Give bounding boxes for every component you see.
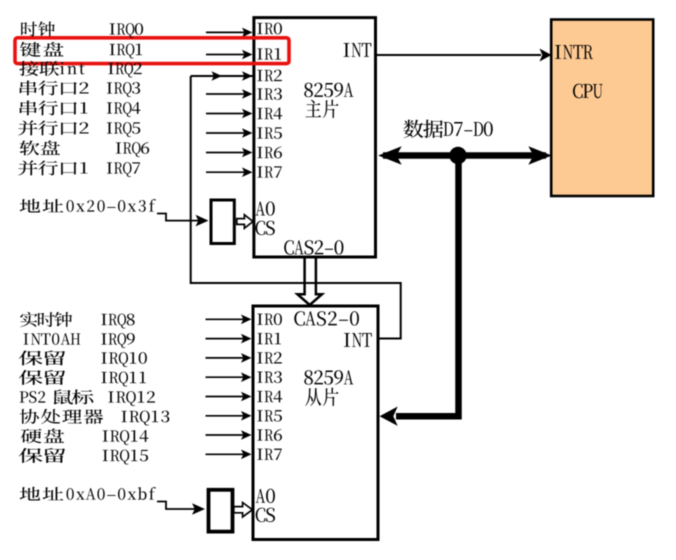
- box U1: master 8259A chip: [254, 18, 376, 257]
- label: 串行口 1 IRQ4: [20, 100, 141, 117]
- wire: IRQ8 arrow into slave IR0: [206, 318, 244, 320]
- wire: slave INT feedback up to master IR2 input: [191, 76, 401, 339]
- label: 数据D7-D0 data bus: [403, 120, 492, 138]
- pin label: master IR3: [257, 88, 282, 100]
- bus: data D7-D0 horizontal between master and CPU (double arrow): [383, 152, 546, 159]
- wire: IRQ7 arrow into master IR7: [206, 171, 244, 173]
- pin label: master CAS2-0: [284, 240, 343, 255]
- label: 并行口 2 IRQ5: [18, 120, 140, 137]
- wire: IRQ4 arrow into master IR4: [206, 113, 244, 115]
- wire: IRQ5 arrow into master IR5: [206, 132, 244, 134]
- label: 并行口 1 IRQ7: [18, 160, 140, 177]
- box U2: slave 8259A chip: [253, 306, 378, 540]
- wire: IRQ2 line into master IR2 (joined by slave INT wire): [191, 75, 253, 77]
- pin label: master IR4: [257, 108, 282, 120]
- pin label: slave INT: [344, 333, 372, 347]
- pin label: master IR6: [257, 147, 282, 159]
- text: master 8259A: [304, 83, 353, 97]
- wire: IRQ10 arrow into slave IR2: [206, 357, 244, 359]
- label: 实时钟 IRQ8: [20, 312, 135, 329]
- wire: IRQ11 arrow into slave IR3: [206, 376, 244, 378]
- pin label: slave IR0: [257, 313, 282, 325]
- wire: IRQ12 arrow into slave IR4: [206, 396, 244, 398]
- wire: IRQ9 arrow into slave IR1: [206, 338, 244, 340]
- bus: junction dot on data bus: [449, 147, 466, 164]
- pin label: slave IR4: [257, 391, 282, 403]
- label: 协处理器 IRQ13: [20, 409, 170, 426]
- pin label: slave IR3: [257, 371, 282, 383]
- label: 保留 IRQ10: [19, 350, 147, 367]
- wire: IRQ0 arrow into master IR0: [206, 31, 244, 33]
- pin label: slave CAS2-0: [294, 311, 359, 326]
- pin label: slave CS: [256, 508, 275, 522]
- text: slave 8259A: [304, 370, 353, 384]
- label: 串行口 2 IRQ3: [20, 80, 140, 97]
- label: INT0AH IRQ9: [24, 333, 135, 348]
- wire: IRQ3 arrow into master IR3: [206, 93, 244, 95]
- pin label: slave A0: [256, 489, 275, 503]
- text: master 主片: [305, 100, 338, 118]
- hollow arrow: decoder A2 output to slave A0/CS: [234, 503, 253, 517]
- pin label: slave IR7: [257, 449, 281, 460]
- box U3: CPU: [551, 20, 653, 197]
- pin label: master IR2: [257, 70, 282, 82]
- wire: address 0xA0-0xbf to decoder A2: [157, 502, 199, 510]
- wire: IRQ13 arrow into slave IR5: [206, 415, 244, 417]
- label: 接联 int IRQ2: [19, 61, 141, 78]
- label: 地址 0x20-0x3f: [20, 199, 156, 213]
- wire: IRQ14 arrow into slave IR6: [206, 434, 244, 436]
- wire: master INT to CPU INTR: [377, 54, 541, 56]
- wire: IRQ15 arrow into slave IR7: [206, 453, 244, 455]
- pin label: master IR1: [257, 48, 281, 60]
- bus: data bus vertical drop and arrow into slave: [396, 156, 459, 417]
- text: slave 从片: [305, 388, 338, 406]
- label: 硬盘 IRQ14: [21, 428, 149, 445]
- label: 保留 IRQ11: [19, 370, 146, 387]
- label: 键盘 IRQ1: [20, 42, 142, 59]
- label: 地址 0xA0-0xbf: [20, 487, 156, 501]
- label: 保留 IRQ15: [19, 448, 148, 465]
- pin label: master CS: [255, 221, 274, 235]
- box A2: slave address decoder: [209, 490, 233, 532]
- pin label: master A0: [255, 201, 274, 215]
- text: CPU: [573, 84, 603, 99]
- pin label: master INT: [344, 43, 372, 57]
- label: 时钟 IRQ0: [21, 21, 143, 38]
- block arrow: CAS2-0 cascade from master down to slave: [297, 259, 322, 306]
- pin label: slave IR2: [257, 352, 282, 364]
- wire: IRQ1 arrow into master IR1: [206, 54, 244, 56]
- label: PS2 鼠标 IRQ12: [20, 389, 155, 406]
- pin label: CPU INTR: [555, 45, 593, 59]
- pin label: master IR0: [257, 23, 282, 35]
- red highlight box around 键盘 IRQ1 row: [15, 38, 289, 64]
- pin label: master IR7: [257, 166, 281, 177]
- wire: IRQ6 arrow into master IR6: [206, 152, 244, 154]
- pin label: master IR5: [257, 127, 282, 138]
- pin label: slave IR1: [257, 333, 281, 345]
- pin label: slave IR5: [257, 410, 282, 421]
- pin label: slave IR6: [257, 429, 282, 441]
- wire: address 0x20-0x3f to decoder A1: [157, 214, 201, 221]
- box A1: master address decoder: [211, 200, 234, 244]
- hollow arrow: decoder A1 output to master A0/CS: [237, 215, 253, 229]
- label: 软盘 IRQ6: [20, 140, 150, 157]
